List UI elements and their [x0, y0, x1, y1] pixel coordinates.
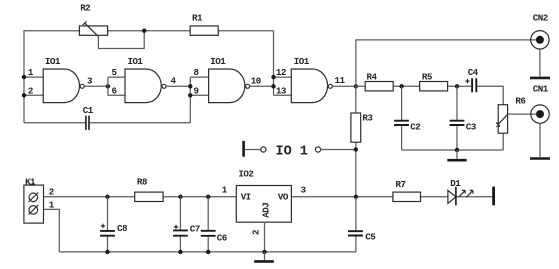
svg-text:C2: C2 — [410, 121, 420, 132]
svg-text:IO1: IO1 — [210, 56, 226, 67]
connector K1 — [24, 176, 55, 223]
ground C3 — [447, 150, 466, 160]
wire R4 row — [356, 86, 503, 104]
svg-text:VO: VO — [278, 191, 289, 202]
node gate4 junction — [271, 84, 275, 88]
svg-text:IO 1: IO 1 — [276, 145, 308, 160]
svg-text:CN2: CN2 — [533, 12, 548, 23]
svg-text:R6: R6 — [515, 96, 525, 107]
node rail ADJ — [262, 250, 266, 254]
wire R2 to R1 — [108, 30, 191, 32]
node R5-C3 — [455, 84, 459, 88]
svg-text:K1: K1 — [25, 176, 36, 187]
op-amp IO1 gate C — [194, 56, 261, 103]
node gate1 pin1 — [22, 75, 26, 79]
resistor R5 — [420, 71, 448, 91]
node rail C8 — [105, 250, 109, 254]
op-amp IO1 gate D — [276, 56, 346, 103]
wire gate3 out — [250, 85, 274, 87]
op-amp IO1 gate A — [28, 56, 93, 103]
svg-text:R8: R8 — [137, 177, 148, 188]
svg-text:11: 11 — [335, 75, 346, 86]
svg-text:IO1: IO1 — [294, 56, 310, 67]
potentiometer R6 — [496, 96, 525, 134]
wire R1 to gate4 input bar — [218, 30, 273, 32]
svg-text:2: 2 — [49, 187, 54, 198]
wire ground rail right — [402, 133, 504, 150]
wire VO row — [291, 196, 493, 198]
node R4-C2 — [399, 84, 403, 88]
svg-text:C8: C8 — [117, 223, 128, 234]
wire bottom rail — [59, 251, 356, 253]
connector CN1 — [531, 84, 549, 124]
supply symbol IO1 power — [242, 141, 355, 160]
node R3 bottom — [354, 147, 358, 151]
wire gate4 input bar — [274, 31, 292, 96]
wire gate2 out — [166, 85, 190, 87]
node C7 top — [178, 195, 182, 199]
svg-text:6: 6 — [112, 85, 117, 96]
svg-text:CN1: CN1 — [533, 84, 549, 95]
node gate1 pin2 — [22, 93, 26, 97]
svg-text:R5: R5 — [422, 71, 433, 82]
node C6 top — [206, 195, 210, 199]
svg-text:R4: R4 — [367, 71, 378, 82]
ground CN2 — [530, 49, 550, 78]
ground bar right of D1 — [492, 187, 495, 206]
resistor R4 — [365, 71, 393, 91]
wire K1 pin1 down — [44, 209, 60, 252]
svg-text:R1: R1 — [192, 13, 203, 24]
capacitor C7 — [173, 197, 200, 252]
svg-text:12: 12 — [276, 67, 286, 78]
resistor R3 — [351, 86, 373, 197]
capacitor C3 — [450, 86, 477, 150]
wire gate4 out — [333, 85, 356, 87]
svg-text:D1: D1 — [450, 178, 461, 189]
node pin11 — [354, 84, 358, 88]
node R2 wiper junction — [142, 29, 146, 33]
wire top-left loop — [24, 31, 79, 123]
node gate4 pin12 — [271, 75, 275, 79]
capacitor C8 — [100, 197, 128, 252]
capacitor C4 — [465, 67, 478, 92]
svg-text:IO1: IO1 — [128, 56, 144, 67]
node rail C7 — [178, 250, 182, 254]
svg-text:C3: C3 — [466, 121, 477, 132]
node rail-C3 — [455, 148, 459, 152]
svg-text:VI: VI — [241, 191, 251, 202]
svg-text:IO1: IO1 — [45, 56, 61, 67]
svg-text:C6: C6 — [217, 233, 227, 244]
ground bottom center — [254, 252, 274, 262]
node rail C6 — [206, 250, 210, 254]
node C8 top — [105, 195, 109, 199]
wire gate3 input bar — [190, 77, 208, 123]
svg-text:R7: R7 — [396, 179, 406, 190]
wire IO2 ADJ pin — [264, 222, 266, 252]
svg-text:R3: R3 — [362, 112, 373, 123]
svg-text:C7: C7 — [190, 223, 200, 234]
resistor R7 — [393, 179, 421, 202]
node gate3 pin9 — [188, 93, 192, 97]
capacitor C6 — [201, 197, 227, 252]
wire gate1 input stubs — [24, 77, 43, 95]
svg-text:C5: C5 — [365, 232, 376, 243]
resistor R2 — [79, 3, 107, 37]
wire gate1 out — [84, 85, 108, 87]
resistor R8 — [135, 177, 163, 202]
wire K1 pin2 row — [44, 196, 237, 198]
svg-text:ADJ: ADJ — [260, 203, 271, 218]
svg-text:C4: C4 — [468, 67, 479, 78]
capacitor C2 — [394, 86, 420, 150]
capacitor C5 — [348, 197, 376, 252]
svg-text:9: 9 — [194, 85, 199, 96]
capacitor C1 — [24, 105, 190, 130]
svg-text:13: 13 — [276, 85, 287, 96]
svg-text:10: 10 — [251, 75, 261, 86]
svg-text:C1: C1 — [83, 105, 94, 116]
svg-text:2: 2 — [28, 85, 33, 96]
svg-text:2: 2 — [251, 230, 262, 235]
ground CN1 — [530, 123, 550, 158]
node gate3 pin junction — [188, 84, 192, 88]
connector CN2 — [531, 12, 549, 49]
resistor R1 — [190, 13, 218, 36]
wire pin11 to CN2 — [356, 40, 540, 86]
regulator IO2 — [222, 169, 307, 223]
diode D1 LED — [448, 178, 473, 205]
svg-text:R2: R2 — [80, 3, 90, 14]
wire R2 wiper — [98, 31, 144, 49]
wire gate2 input bar — [108, 77, 125, 95]
node VO junction — [354, 195, 358, 199]
wire R6 wiper to CN1 — [508, 113, 540, 115]
node gate2 input — [106, 84, 110, 88]
op-amp IO1 gate B — [112, 56, 177, 103]
svg-text:IO2: IO2 — [238, 169, 253, 180]
